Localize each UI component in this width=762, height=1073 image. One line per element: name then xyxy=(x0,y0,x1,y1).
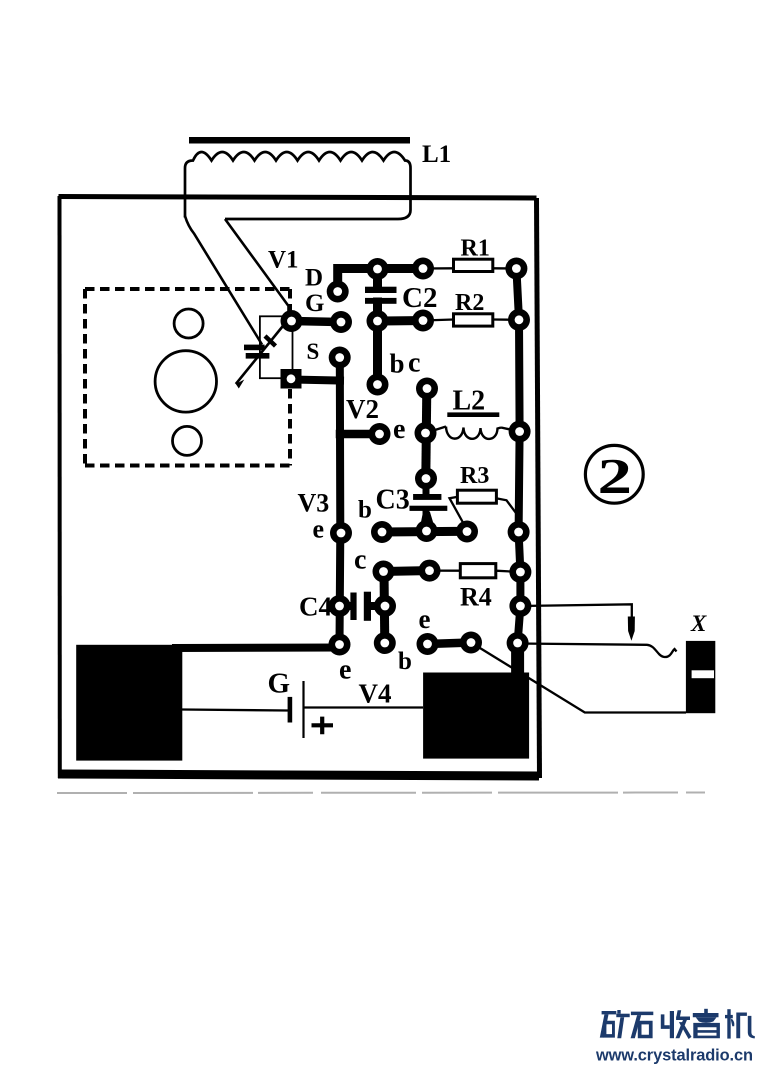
svg-text:e: e xyxy=(393,414,405,445)
svg-text:b: b xyxy=(358,497,372,524)
svg-text:L2: L2 xyxy=(453,386,486,417)
svg-text:D: D xyxy=(305,265,323,292)
svg-text:b: b xyxy=(390,349,405,379)
svg-text:V4: V4 xyxy=(359,679,392,709)
svg-text:c: c xyxy=(408,348,420,379)
svg-text:L1: L1 xyxy=(422,141,451,168)
svg-text:www.crystalradio.cn: www.crystalradio.cn xyxy=(595,1047,753,1065)
svg-text:e: e xyxy=(313,515,325,544)
svg-text:R2: R2 xyxy=(455,290,484,316)
svg-text:R4: R4 xyxy=(460,583,492,612)
svg-text:V3: V3 xyxy=(298,489,330,518)
svg-text:R3: R3 xyxy=(460,463,489,489)
svg-text:C3: C3 xyxy=(376,485,410,516)
svg-text:2: 2 xyxy=(598,449,632,505)
svg-text:V1: V1 xyxy=(268,247,299,274)
svg-text:e: e xyxy=(339,655,351,686)
svg-text:X: X xyxy=(690,611,707,636)
svg-text:S: S xyxy=(307,339,320,364)
svg-text:G: G xyxy=(305,290,324,317)
svg-text:C2: C2 xyxy=(402,282,437,314)
svg-text:e: e xyxy=(419,604,431,634)
svg-text:G: G xyxy=(268,668,291,700)
svg-text:c: c xyxy=(354,545,366,576)
svg-text:V2: V2 xyxy=(346,394,379,424)
svg-text:C4: C4 xyxy=(299,592,332,622)
svg-text:b: b xyxy=(398,648,412,675)
svg-text:R1: R1 xyxy=(461,236,490,262)
